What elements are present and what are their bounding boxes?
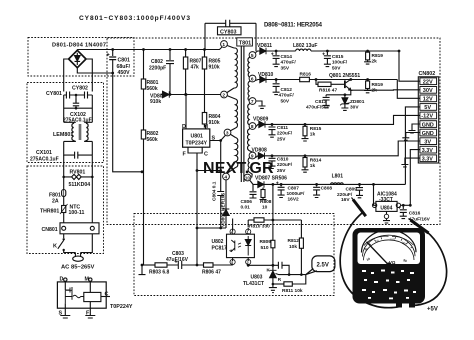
svg-text:GND: GND bbox=[422, 131, 434, 137]
svg-text:16V: 16V bbox=[341, 197, 350, 203]
svg-text:6: 6 bbox=[251, 77, 254, 83]
svg-text:3.3V: 3.3V bbox=[422, 157, 433, 163]
ground pin 7 bbox=[256, 101, 266, 108]
svg-text:7: 7 bbox=[251, 99, 254, 105]
wire GND1 hook bbox=[409, 124, 420, 133]
svg-text:-12V: -12V bbox=[421, 114, 433, 120]
wire GND2 hook bbox=[402, 133, 420, 141]
capacitor C811 bbox=[269, 123, 276, 137]
svg-text:50V: 50V bbox=[332, 65, 341, 71]
zener ZD801 bbox=[340, 93, 349, 110]
svg-text:68uF/: 68uF/ bbox=[117, 64, 131, 70]
svg-text:220uF/: 220uF/ bbox=[277, 162, 293, 168]
svg-text:470uF/: 470uF/ bbox=[281, 60, 297, 66]
svg-text:12V: 12V bbox=[423, 97, 433, 103]
capacitor C812 bbox=[273, 78, 280, 95]
multimeter dial bbox=[361, 230, 416, 265]
resistor R806 bbox=[196, 263, 233, 267]
pin 10 bbox=[244, 174, 251, 181]
svg-text:L801: L801 bbox=[332, 174, 344, 180]
pin 30V bbox=[420, 87, 437, 95]
bridge rectifier D801-D804 bbox=[69, 50, 86, 67]
svg-text:VΩ: VΩ bbox=[389, 260, 396, 265]
svg-text:R810 330: R810 330 bbox=[249, 224, 270, 230]
svg-text:35V: 35V bbox=[281, 65, 290, 71]
svg-text:3V: 3V bbox=[424, 139, 431, 145]
svg-text:C801: C801 bbox=[118, 58, 131, 64]
svg-text:U801: U801 bbox=[191, 134, 204, 140]
label D808~D811 note bbox=[264, 23, 323, 29]
watermark bbox=[203, 160, 274, 177]
pin 4 bbox=[223, 173, 230, 181]
svg-text:1000uF/: 1000uF/ bbox=[287, 191, 306, 197]
svg-text:VD808: VD808 bbox=[252, 148, 268, 154]
wire bridge bottom to hot return bbox=[77, 68, 112, 73]
pin 5V bbox=[420, 104, 437, 112]
svg-text:2: 2 bbox=[222, 93, 225, 99]
capacitor C805 comp bbox=[278, 262, 282, 269]
svg-text:47uF/16V: 47uF/16V bbox=[166, 257, 189, 263]
connector CN801 bbox=[60, 177, 99, 234]
svg-text:30V: 30V bbox=[423, 88, 433, 94]
capacitor CY803 bbox=[205, 20, 256, 51]
pin 2 bbox=[221, 91, 228, 99]
svg-text:C808: C808 bbox=[321, 186, 333, 192]
capacitor C802 bbox=[166, 48, 174, 96]
pin 3.3V2 bbox=[420, 155, 437, 163]
svg-text:30V: 30V bbox=[350, 105, 359, 111]
svg-text:3: 3 bbox=[231, 261, 233, 265]
svg-text:2k: 2k bbox=[372, 88, 378, 94]
dashed box main converter bbox=[107, 38, 440, 225]
multimeter speckles bbox=[362, 270, 416, 300]
svg-text:2A: 2A bbox=[52, 199, 59, 205]
left test probe bbox=[340, 198, 398, 308]
callout 2.5V bbox=[306, 256, 335, 275]
dashed box EMI filter section bbox=[27, 83, 104, 163]
wire 22V feed bbox=[398, 50, 420, 82]
resistor R805 bbox=[202, 48, 206, 112]
wire LED cathode row bbox=[247, 264, 289, 275]
svg-text:8: 8 bbox=[251, 124, 254, 130]
svg-text:THR801: THR801 bbox=[40, 209, 59, 215]
shunt regulator U803 TL431 bbox=[269, 265, 306, 292]
svg-text:R806 47: R806 47 bbox=[202, 270, 221, 276]
node primary rail bbox=[77, 45, 224, 50]
pin GND2 bbox=[420, 129, 437, 137]
svg-text:K: K bbox=[53, 244, 57, 250]
svg-text:910k: 910k bbox=[209, 120, 220, 126]
svg-text:CX101: CX101 bbox=[36, 150, 52, 156]
svg-text:R814: R814 bbox=[310, 158, 322, 164]
capacitor C810 bbox=[269, 154, 276, 168]
svg-text:VD807 SR506: VD807 SR506 bbox=[255, 176, 287, 182]
inductor L801 bbox=[331, 183, 344, 185]
detail pin F bbox=[85, 308, 95, 318]
wire -12V bbox=[303, 115, 420, 124]
label +5V bbox=[427, 307, 438, 313]
capacitor C815 bbox=[322, 50, 331, 67]
pin 1 bbox=[221, 41, 228, 49]
svg-text:C804 0.1: C804 0.1 bbox=[212, 181, 218, 201]
detail mosfet bbox=[65, 287, 84, 303]
svg-text:R819: R819 bbox=[372, 82, 384, 88]
resistor R810 bbox=[248, 218, 301, 227]
capacitor C814 bbox=[271, 50, 280, 67]
svg-text:VD809: VD809 bbox=[253, 117, 269, 123]
svg-text:T801: T801 bbox=[239, 40, 251, 46]
inductor L802 bbox=[296, 49, 399, 51]
common mode choke LEM801 bbox=[64, 122, 93, 141]
svg-text:100: 100 bbox=[390, 238, 395, 242]
diode VD811 bbox=[256, 48, 296, 54]
svg-text:CY803: CY803 bbox=[220, 30, 236, 36]
svg-text:D: D bbox=[182, 124, 186, 130]
svg-text:1k: 1k bbox=[310, 163, 316, 169]
resistor R804 bbox=[202, 113, 206, 129]
transformer T801 bbox=[224, 45, 253, 183]
capacitor C804 bbox=[196, 141, 225, 229]
svg-text:VD810: VD810 bbox=[258, 72, 274, 78]
dashed box bridge section bbox=[28, 38, 134, 77]
resistor R819 (22V) bbox=[364, 50, 371, 65]
svg-text:4: 4 bbox=[224, 175, 227, 181]
svg-text:C811: C811 bbox=[277, 125, 289, 131]
svg-text:R816 47: R816 47 bbox=[319, 88, 337, 94]
svg-text:D: D bbox=[60, 277, 64, 283]
svg-text:C815: C815 bbox=[332, 54, 344, 60]
multimeter body bbox=[353, 228, 426, 304]
svg-text:-33CT: -33CT bbox=[379, 197, 393, 203]
svg-text:M: M bbox=[204, 124, 209, 130]
wire 3V bbox=[303, 141, 420, 156]
pin 5 bbox=[249, 52, 256, 60]
detail box TOP224Y bbox=[57, 282, 106, 308]
dashed box feedback section bbox=[134, 214, 334, 296]
svg-text:S: S bbox=[59, 311, 63, 317]
pin 3 bbox=[224, 129, 231, 137]
transistor Q801 bbox=[345, 78, 352, 90]
svg-text:5: 5 bbox=[251, 53, 254, 59]
varistor RV801 bbox=[62, 155, 93, 179]
wire 12V feed bbox=[397, 80, 420, 99]
svg-text:R811 10k: R811 10k bbox=[282, 288, 303, 294]
switch K bbox=[58, 234, 76, 253]
svg-text:VD811: VD811 bbox=[257, 43, 272, 49]
svg-text:220uF/: 220uF/ bbox=[337, 192, 353, 198]
svg-text:50V: 50V bbox=[281, 98, 290, 104]
resistor R808 bbox=[260, 188, 267, 200]
fuse F801 bbox=[62, 177, 66, 206]
svg-text:C806: C806 bbox=[241, 199, 253, 205]
svg-text:560k: 560k bbox=[147, 137, 158, 143]
svg-text:TL431CT: TL431CT bbox=[243, 281, 264, 287]
capacitor CY802 bbox=[75, 92, 93, 104]
svg-text:C802: C802 bbox=[151, 59, 163, 65]
svg-text:1k: 1k bbox=[310, 132, 316, 138]
pin 22V bbox=[420, 78, 437, 86]
diode VD810 bbox=[256, 76, 300, 82]
resistor R815 bbox=[302, 123, 309, 141]
svg-text:GND: GND bbox=[422, 122, 434, 128]
capacitor C813 bbox=[323, 95, 330, 108]
svg-text:C816: C816 bbox=[409, 211, 421, 217]
svg-text:470uF/50V: 470uF/50V bbox=[306, 105, 331, 111]
svg-text:22V: 22V bbox=[423, 80, 433, 86]
pin 9 bbox=[249, 152, 256, 160]
diode VD808 bbox=[256, 153, 304, 159]
wire bridge top to rail bbox=[76, 49, 78, 52]
svg-text:PC817: PC817 bbox=[212, 246, 228, 252]
resistor R814 bbox=[302, 154, 309, 172]
capacitor C808 bbox=[313, 183, 320, 198]
detail control block bbox=[84, 292, 110, 308]
svg-text:T0P224Y: T0P224Y bbox=[110, 304, 133, 310]
pin 8 bbox=[249, 123, 256, 131]
pin 3V bbox=[420, 138, 437, 146]
svg-text:2k: 2k bbox=[372, 59, 378, 65]
detail pin S bbox=[60, 303, 70, 318]
svg-text:ZD801: ZD801 bbox=[350, 99, 365, 105]
svg-text:R819: R819 bbox=[372, 53, 384, 59]
svg-text:VD805 HER105: VD805 HER105 bbox=[220, 193, 226, 227]
svg-text:C813: C813 bbox=[315, 99, 327, 105]
svg-text:AC 85~265V: AC 85~265V bbox=[61, 265, 94, 271]
svg-text:R809: R809 bbox=[260, 239, 272, 245]
dashed box AC input section bbox=[27, 166, 104, 254]
svg-text:2200pF: 2200pF bbox=[149, 66, 166, 72]
svg-text:10: 10 bbox=[245, 176, 250, 181]
AC plug bbox=[73, 234, 93, 262]
svg-text:S: S bbox=[212, 136, 216, 142]
pin 7 bbox=[249, 98, 256, 106]
pin 12V bbox=[420, 95, 437, 103]
svg-text:275AC0.1uF: 275AC0.1uF bbox=[30, 157, 59, 163]
svg-text:R808: R808 bbox=[260, 199, 272, 205]
optocoupler U802 PC817 bbox=[227, 219, 255, 266]
svg-text:25V: 25V bbox=[277, 168, 286, 174]
svg-text:M: M bbox=[85, 277, 90, 283]
svg-text:C: C bbox=[204, 152, 208, 158]
detail pin M bbox=[89, 278, 92, 293]
capacitor C801 bbox=[107, 48, 117, 74]
svg-text:C807: C807 bbox=[288, 186, 300, 192]
diode VD806 bbox=[161, 91, 224, 98]
label T801 bbox=[237, 38, 253, 46]
svg-text:1: 1 bbox=[247, 230, 249, 234]
svg-text:D808~0811: HER2054: D808~0811: HER2054 bbox=[264, 23, 323, 29]
svg-text:1: 1 bbox=[222, 42, 225, 48]
svg-text:560k: 560k bbox=[147, 86, 158, 92]
svg-text:450V: 450V bbox=[118, 70, 131, 76]
svg-text:100-11: 100-11 bbox=[69, 210, 85, 216]
svg-text:D801-D804 1N4007: D801-D804 1N4007 bbox=[52, 43, 106, 49]
svg-text:10k: 10k bbox=[289, 244, 297, 250]
svg-text:U803: U803 bbox=[251, 275, 263, 281]
svg-text:510: 510 bbox=[261, 245, 269, 251]
svg-text:25V: 25V bbox=[277, 136, 286, 142]
svg-text:R812: R812 bbox=[288, 238, 300, 244]
capacitor CX102 bbox=[64, 95, 93, 122]
resistor R816 bbox=[300, 77, 398, 81]
svg-text:RV801: RV801 bbox=[70, 170, 86, 176]
svg-text:T0P234Y: T0P234Y bbox=[186, 141, 208, 147]
svg-text:C812: C812 bbox=[281, 87, 293, 93]
wire 30V from emitter bbox=[326, 90, 420, 95]
diode VD805 bbox=[196, 180, 230, 230]
svg-text:U804: U804 bbox=[380, 205, 392, 211]
resistor R817 bbox=[315, 78, 345, 86]
label CY801~CY803 note bbox=[79, 15, 190, 22]
svg-text:9: 9 bbox=[251, 154, 254, 160]
svg-text:+5V: +5V bbox=[427, 307, 438, 313]
svg-text:L802 13uF: L802 13uF bbox=[293, 43, 317, 49]
svg-text:NEXT.GR: NEXT.GR bbox=[203, 160, 274, 177]
right test probe bbox=[409, 219, 447, 306]
resistor R812 bbox=[299, 220, 303, 275]
capacitor CY801 bbox=[64, 92, 76, 99]
svg-text:CY801~CY803:1000pF/400V3: CY801~CY803:1000pF/400V3 bbox=[79, 15, 190, 22]
pin GND1 bbox=[420, 121, 437, 129]
svg-text:10: 10 bbox=[262, 205, 268, 211]
svg-text:CY801: CY801 bbox=[46, 91, 62, 97]
svg-text:47k: 47k bbox=[191, 65, 200, 71]
svg-text:R803 6.8: R803 6.8 bbox=[149, 270, 170, 276]
wire 3.3V feeds bbox=[401, 150, 420, 206]
wire bridge right leg bbox=[86, 59, 92, 92]
regulator U804 AIC1084 bbox=[372, 183, 412, 223]
svg-text:2.5V: 2.5V bbox=[317, 263, 329, 269]
svg-text:910k: 910k bbox=[150, 99, 161, 105]
resistor R802 bbox=[141, 89, 145, 265]
wire 5V feed bbox=[405, 107, 420, 184]
detail pin D bbox=[64, 278, 67, 290]
svg-text:U802: U802 bbox=[212, 239, 224, 245]
svg-text:470uF/: 470uF/ bbox=[279, 93, 295, 99]
capacitor C803 bbox=[167, 260, 204, 269]
resistor R809 bbox=[271, 220, 275, 265]
svg-text:C: C bbox=[105, 292, 109, 298]
connector CN802 bbox=[418, 77, 438, 163]
resistor R807 bbox=[183, 48, 187, 96]
resistor R819 (30V) bbox=[364, 78, 371, 93]
svg-text:3: 3 bbox=[226, 131, 229, 137]
svg-text:16V2: 16V2 bbox=[288, 197, 300, 203]
svg-text:3.3V: 3.3V bbox=[422, 148, 433, 154]
pin -12V bbox=[420, 112, 437, 120]
svg-text:910k: 910k bbox=[209, 65, 220, 71]
capacitor CX101 bbox=[64, 141, 93, 158]
svg-text:CN802: CN802 bbox=[419, 71, 436, 77]
pin 6 bbox=[249, 75, 256, 83]
capacitor C816 bbox=[398, 204, 407, 219]
svg-text:5V: 5V bbox=[424, 105, 431, 111]
svg-text:CY802: CY802 bbox=[72, 86, 88, 92]
svg-text:511KD04: 511KD04 bbox=[69, 182, 91, 188]
svg-text:CN801: CN801 bbox=[42, 227, 58, 233]
capacitor C807 bbox=[276, 182, 285, 198]
op-amp U801 TOP234Y bbox=[183, 93, 226, 265]
svg-text:C810: C810 bbox=[277, 157, 289, 163]
svg-text:100uF/: 100uF/ bbox=[332, 60, 348, 66]
svg-text:LEM801: LEM801 bbox=[53, 132, 73, 138]
pin 3.3V1 bbox=[420, 146, 437, 154]
wire bridge left leg bbox=[64, 59, 69, 92]
resistor R801 bbox=[141, 48, 145, 89]
resistor R811 bbox=[272, 275, 306, 287]
meter terminals bbox=[396, 304, 415, 308]
svg-text:R815: R815 bbox=[310, 126, 322, 132]
wire feedback tap bbox=[272, 183, 275, 220]
svg-text:220uF/: 220uF/ bbox=[277, 131, 293, 137]
svg-text:Q801 2N5551: Q801 2N5551 bbox=[329, 73, 360, 79]
resistor R803 bbox=[139, 263, 168, 275]
wire hot return vertical bbox=[113, 73, 144, 173]
svg-text:0.01: 0.01 bbox=[241, 205, 251, 211]
diode VD809 bbox=[256, 121, 304, 127]
capacitor C809 bbox=[356, 183, 363, 198]
svg-text:R816: R816 bbox=[300, 72, 312, 78]
capacitor C806 bbox=[250, 184, 257, 198]
svg-text:C809: C809 bbox=[346, 187, 358, 193]
thermistor THR801 bbox=[60, 204, 68, 223]
svg-text:C814: C814 bbox=[281, 54, 293, 60]
diode VD807 SR506 bbox=[250, 181, 405, 188]
